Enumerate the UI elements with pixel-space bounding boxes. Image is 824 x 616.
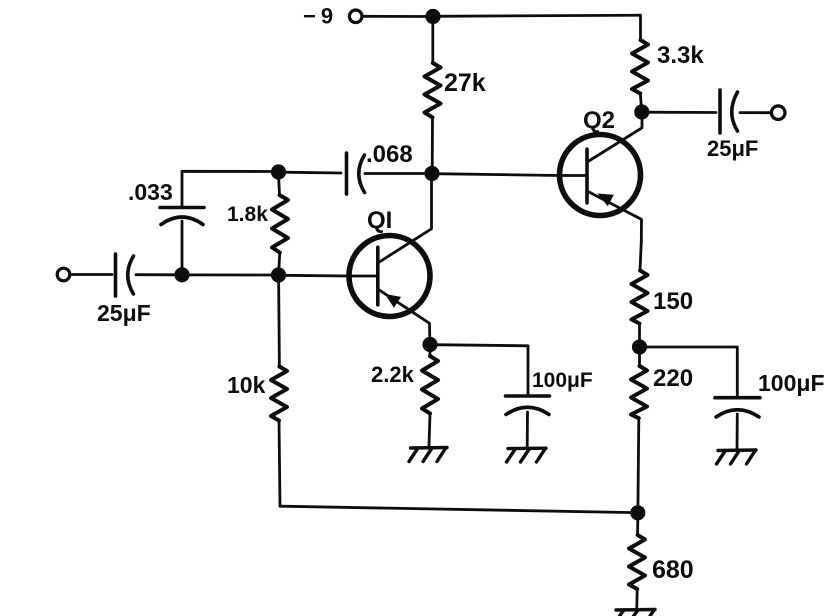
wire Q2 emitter to resistor 150 bbox=[640, 242, 641, 271]
wire input terminal to cap 25uF bbox=[71, 273, 113, 276]
wire node I to output cap bbox=[644, 111, 716, 114]
capacitor 100uF (Q2 emitter) bbox=[715, 398, 760, 417]
wire 1.8k to node D bbox=[279, 253, 280, 274]
svg-text:150: 150 bbox=[653, 288, 693, 315]
node G (between 150 and 220) bbox=[632, 339, 647, 354]
svg-text:25μF: 25μF bbox=[707, 136, 758, 161]
svg-text:−9: −9 bbox=[303, 4, 338, 29]
wire R27k to node B bbox=[431, 118, 434, 172]
terminal -9 supply bbox=[349, 10, 362, 23]
wire 3.3k to node I bbox=[640, 94, 641, 111]
svg-text:QI: QI bbox=[367, 207, 392, 234]
wire cap 100uF right to ground bbox=[736, 414, 739, 449]
svg-text:.068: .068 bbox=[366, 141, 413, 168]
Q1 emitter lead bbox=[379, 290, 430, 343]
svg-text:100μF: 100μF bbox=[758, 370, 824, 396]
ground (680) bbox=[616, 610, 655, 616]
svg-text:10k: 10k bbox=[227, 372, 266, 398]
ground (100uF left) bbox=[507, 448, 547, 462]
Q2 collector lead bbox=[588, 114, 642, 162]
capacitor 100uF (Q1 emitter) bbox=[506, 396, 550, 415]
svg-text:2.2k: 2.2k bbox=[371, 362, 415, 387]
svg-text:1.8k: 1.8k bbox=[227, 203, 268, 226]
wire bottom feedback run bbox=[280, 506, 635, 512]
resistor 680 bbox=[629, 535, 645, 589]
node E (input node) bbox=[174, 267, 189, 282]
node C (top of 1.8k) bbox=[271, 164, 286, 179]
wire cap .068 to node C bbox=[281, 171, 341, 175]
wire 150 to node G bbox=[638, 324, 641, 345]
wire node D to Q1 base bbox=[281, 274, 350, 278]
Q1 emitter arrow bbox=[385, 294, 401, 308]
resistor 150 bbox=[632, 271, 648, 324]
wire 10k to bottom corner bbox=[279, 421, 280, 507]
wire node E to node D bbox=[184, 273, 276, 276]
resistor 3.3k bbox=[632, 40, 648, 94]
Q1 collector lead bbox=[379, 176, 432, 263]
Q2 emitter lead bbox=[589, 192, 642, 242]
wire 220 to node F bbox=[637, 418, 641, 510]
svg-text:27k: 27k bbox=[444, 69, 486, 97]
wire 680 to ground bbox=[635, 589, 638, 608]
wire node C to resistor 1.8k bbox=[279, 174, 280, 195]
node F (feedback node) bbox=[630, 505, 645, 520]
node H (Q1 emitter node) bbox=[422, 337, 437, 352]
wire node C to cap .033 top bbox=[182, 171, 276, 206]
wire node A down to R 27k bbox=[431, 18, 434, 63]
wire node D down to resistor 10k bbox=[277, 277, 281, 367]
node A (top supply junction) bbox=[425, 9, 440, 24]
svg-text:3.3k: 3.3k bbox=[657, 42, 704, 69]
wire output cap to output terminal bbox=[740, 111, 771, 114]
transistor Q1 bbox=[349, 176, 432, 342]
svg-text:220: 220 bbox=[653, 365, 693, 392]
svg-text:25μF: 25μF bbox=[97, 300, 151, 326]
capacitor .068 bbox=[347, 153, 365, 194]
svg-text:100μF: 100μF bbox=[532, 369, 593, 392]
wire node A to 3.3k top corner bbox=[435, 15, 641, 40]
wire node G to resistor 220 bbox=[638, 349, 641, 366]
ground (100uF right) bbox=[717, 450, 757, 464]
resistor 220 bbox=[631, 366, 647, 418]
ground (2.2k) bbox=[409, 448, 447, 462]
terminal input bbox=[57, 268, 70, 281]
wire node F to resistor 680 bbox=[636, 515, 639, 535]
resistor 1.8k bbox=[272, 195, 288, 253]
capacitor 25uF input bbox=[116, 254, 134, 296]
wire node B to Q2 base bbox=[434, 174, 560, 176]
transistor Q2 bbox=[560, 114, 643, 242]
wire cap 100uF to ground bbox=[526, 412, 529, 447]
svg-text:.033: .033 bbox=[128, 179, 173, 205]
wire -9 terminal to node A bbox=[363, 15, 431, 18]
resistor 10k bbox=[271, 367, 287, 421]
capacitor 25uF output bbox=[720, 90, 738, 133]
capacitor .033 bbox=[160, 208, 204, 225]
node D (Q1 base node) bbox=[271, 267, 286, 282]
wire cap 25uF to node E bbox=[136, 273, 179, 276]
terminal output bbox=[771, 106, 785, 120]
node B (Q1 collector node) bbox=[424, 166, 439, 181]
svg-text:Q2: Q2 bbox=[583, 107, 615, 134]
resistor 27k bbox=[425, 63, 441, 118]
resistor 2.2k bbox=[422, 356, 438, 414]
wire 2.2k to ground bbox=[429, 414, 430, 447]
node I (Q2 collector node) bbox=[634, 104, 649, 119]
wire node B to cap .068 bbox=[365, 172, 430, 175]
wire node H to resistor 2.2k bbox=[429, 347, 432, 356]
wire node G to cap 100uF right bbox=[642, 347, 737, 396]
Q2 emitter arrow bbox=[598, 194, 614, 207]
wire cap .033 bottom to node E bbox=[181, 221, 184, 272]
svg-text:680: 680 bbox=[652, 556, 694, 584]
wire node H right to cap 100uF bbox=[432, 345, 528, 394]
